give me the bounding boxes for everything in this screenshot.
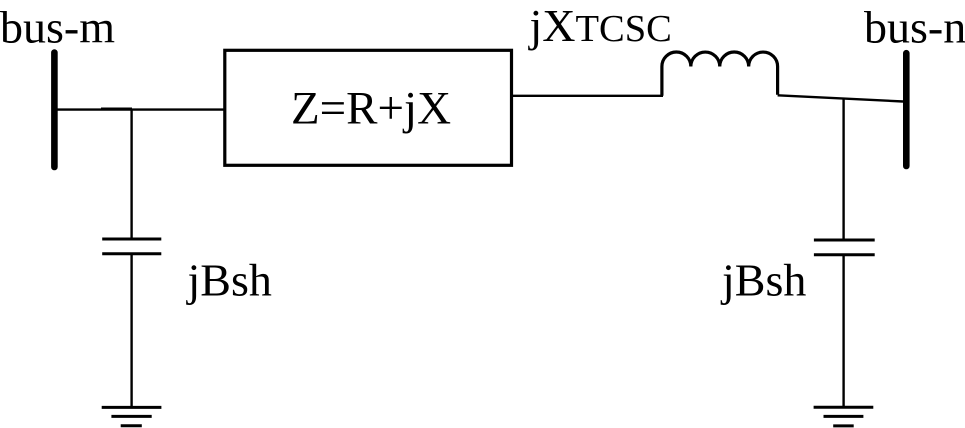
wire overlap segment at left junction — [101, 107, 132, 109]
inductor jXTCSC — [662, 52, 778, 96]
impedance box Z=R+jX — [225, 50, 512, 165]
svg-text:jBsh: jBsh — [720, 255, 806, 306]
bus bar n — [903, 53, 910, 166]
wire capacitor to ground left — [130, 254, 132, 408]
wire left shunt branch down — [130, 110, 132, 239]
svg-text:jXTCSC: jXTCSC — [528, 0, 672, 51]
svg-text:Z=R+jX: Z=R+jX — [291, 82, 451, 134]
capacitor right bottom plate — [814, 253, 875, 256]
capacitor left top plate — [102, 238, 161, 241]
wire Z box to inductor — [512, 95, 664, 97]
capacitor left bottom plate — [102, 252, 161, 255]
ground right — [814, 407, 874, 426]
svg-text:bus-n: bus-n — [864, 2, 965, 53]
wire bus-m to Z box — [57, 108, 226, 110]
wire right shunt branch down — [842, 99, 844, 240]
wire capacitor to ground right — [842, 255, 844, 407]
capacitor right top plate — [814, 239, 875, 242]
ground left — [102, 407, 162, 425]
wire inductor to bus-n — [778, 95, 903, 101]
svg-text:jBsh: jBsh — [186, 255, 272, 306]
bus bar m — [51, 53, 58, 167]
svg-text:bus-m: bus-m — [0, 2, 115, 53]
